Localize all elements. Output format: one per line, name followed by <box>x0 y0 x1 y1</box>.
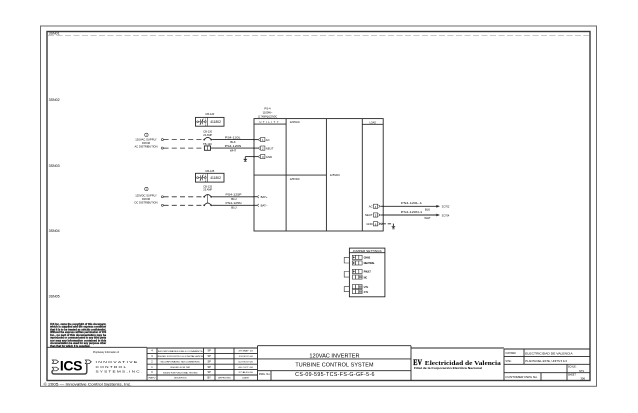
svg-text:CB-120: CB-120 <box>205 112 214 116</box>
svg-text:02 NOV 06: 02 NOV 06 <box>239 361 254 363</box>
svg-text:25 AMP: 25 AMP <box>203 187 212 191</box>
svg-text:S Y S T E M S , I N C .: S Y S T E M S , I N C . <box>96 370 143 374</box>
svg-text:LOAD: LOAD <box>369 120 376 124</box>
svg-text:27 AUG 06: 27 AUG 06 <box>239 371 254 374</box>
svg-text:FAULT: FAULT <box>364 271 372 274</box>
node 120VAC SUPPLY FROM AC DISTRIBUTION <box>135 138 158 149</box>
svg-text:JUMPER SETTINGS: JUMPER SETTINGS <box>353 249 382 253</box>
svg-text:FROM: FROM <box>142 197 151 201</box>
svg-text:CB-125: CB-125 <box>205 169 214 173</box>
svg-text:125VDC: 125VDC <box>330 173 340 177</box>
svg-text:SP: SP <box>207 359 211 363</box>
customer block text <box>505 351 585 380</box>
svg-text:BY: BY <box>207 376 211 380</box>
wire PS4-125P BLU <box>212 193 254 202</box>
note legal paragraph <box>50 323 107 348</box>
svg-text:© 2005 — Innovative Control Sy: © 2005 — Innovative Control Systems, Inc… <box>44 382 132 386</box>
node 125VDC SUPPLY FROM DC DISTRIBUTION <box>135 194 158 205</box>
svg-text:13 NOV 06: 13 NOV 06 <box>239 356 254 358</box>
svg-text:AC DISTRIBUTION: AC DISTRIBUTION <box>135 144 158 148</box>
wire PS4-120N-1 WHT to 3C704 <box>383 210 450 220</box>
jumper JP4 NC <box>352 275 367 279</box>
svg-text:3SN02: 3SN02 <box>49 98 60 102</box>
wire jumper bracket pair 2 <box>344 272 349 278</box>
svg-text:WHT: WHT <box>424 216 431 220</box>
wire dashed 120VAC hot feed <box>161 139 203 141</box>
svg-text:CUSTOMER DWG No.: CUSTOMER DWG No. <box>505 376 538 379</box>
svg-text:PS4-120L-1: PS4-120L-1 <box>401 201 423 205</box>
op-amp U1 inverter PS-4 box <box>254 119 383 231</box>
wire PS4-120L BLK <box>212 135 254 144</box>
svg-text:PS4-120L: PS4-120L <box>225 135 241 139</box>
svg-text:06 OCT 06: 06 OCT 06 <box>239 367 254 369</box>
pin terminal BAT+ <box>253 195 268 199</box>
svg-text:3SN03: 3SN03 <box>49 164 60 168</box>
jumper JP2 NEUTRAL <box>352 261 375 265</box>
svg-text:BLU: BLU <box>231 206 236 210</box>
breaker CB-125 auxiliary contact box 411802 <box>196 169 225 183</box>
svg-text:DC DISTRIBUTION: DC DISTRIBUTION <box>135 200 158 204</box>
svg-text:GND: GND <box>266 155 272 159</box>
svg-text:ISSUED FOR UNITS 5 & 6 INSTALL: ISSUED FOR UNITS 5 & 6 INSTALLATION <box>157 355 204 358</box>
svg-text:3C704: 3C704 <box>442 213 450 217</box>
wire dashed 125VDC negative feed <box>161 204 203 206</box>
svg-text:11.7AMP@125VDC: 11.7AMP@125VDC <box>258 114 278 118</box>
breaker CB-120 20 AMP <box>203 130 212 141</box>
pin 1 terminal AC input <box>253 138 269 143</box>
svg-text:DESCRIPTION: DESCRIPTION <box>174 378 187 380</box>
titleblock lines <box>47 346 590 381</box>
wire dashed 120VAC neutral feed <box>161 147 203 149</box>
svg-text:NEUTRAL: NEUTRAL <box>364 262 375 265</box>
svg-text:SITE:: SITE: <box>505 360 511 363</box>
svg-text:3SN04: 3SN04 <box>49 229 60 233</box>
svg-text:DATE: DATE <box>242 377 249 380</box>
wire PS4-120L-1 BLK to 3C702 <box>383 201 450 211</box>
svg-text:CUSTOMER: CUSTOMER <box>505 352 516 355</box>
svg-text:WHT: WHT <box>230 148 237 152</box>
svg-text:FROM: FROM <box>142 141 151 145</box>
ground input GND <box>243 157 254 162</box>
jumper JP5 UTL <box>352 285 369 289</box>
svg-text:120VAC: 120VAC <box>290 120 300 124</box>
pin 2 terminal NEUT input <box>253 146 274 151</box>
svg-text:SP: SP <box>207 370 211 374</box>
svg-text:TURBINE CONTROL SYSTEM: TURBINE CONTROL SYSTEM <box>295 362 374 368</box>
svg-text:SP: SP <box>207 354 211 358</box>
wire PS4-120N WHT <box>211 144 255 153</box>
svg-text:411802: 411802 <box>210 120 221 124</box>
breaker CB-125 25 AMP two pole <box>203 184 212 206</box>
svg-text:BAT–: BAT– <box>261 204 268 208</box>
svg-text:20 AMP: 20 AMP <box>203 133 212 137</box>
svg-text:INCORPORATED TAT COMMENTS: INCORPORATED TAT COMMENTS <box>161 361 201 364</box>
svg-text:PS4-125N: PS4-125N <box>226 201 242 205</box>
svg-text:APPROVED: APPROVED <box>218 377 231 380</box>
svg-text:AC: AC <box>266 138 270 142</box>
svg-text:I N N O V A T I V E: I N N O V A T I V E <box>96 360 138 364</box>
jumper settings box J1 <box>349 248 385 297</box>
jumper JP6 CTL <box>352 290 369 294</box>
breaker CB-120 auxiliary contact box 411802 <box>196 112 225 126</box>
border frame <box>41 26 597 386</box>
wire dashed 125VDC positive feed <box>161 196 203 198</box>
jumper JP1 CHAS <box>352 255 370 259</box>
svg-text:BAT+: BAT+ <box>261 195 268 199</box>
node source arrow 1 (120VAC supply) <box>145 133 148 137</box>
svg-text:SP: SP <box>207 365 211 369</box>
svg-text:C O N T R O L: C O N T R O L <box>96 365 127 369</box>
svg-text:3SN05: 3SN05 <box>49 295 60 299</box>
power supply U-PS4 name label <box>258 106 278 118</box>
svg-text:ISSUED FOR TAT: ISSUED FOR TAT <box>170 366 191 369</box>
svg-text:SCALE:: SCALE: <box>568 365 577 368</box>
svg-text:CTL: CTL <box>364 292 369 294</box>
svg-text:NEUT: NEUT <box>266 146 274 150</box>
svg-text:EV: EV <box>413 357 422 367</box>
svg-text:UTILITY: UTILITY <box>260 120 279 124</box>
svg-text:120VAC INVERTER: 120VAC INVERTER <box>309 353 359 359</box>
ground output GND <box>383 224 396 229</box>
wire PS4-125N BLU <box>212 201 254 210</box>
svg-text:SP: SP <box>207 349 211 353</box>
terminal TB-120 <box>203 142 212 150</box>
svg-text:125VDC SUPPLY: 125VDC SUPPLY <box>135 194 157 198</box>
svg-text:ELECTRICIDAD DE VALENCIA: ELECTRICIDAD DE VALENCIA <box>525 351 573 355</box>
jumper JP3 FAULT <box>352 269 371 273</box>
svg-text:306: 306 <box>580 377 585 381</box>
svg-text:125VDC: 125VDC <box>290 177 300 181</box>
svg-text:ICS: ICS <box>60 357 82 373</box>
svg-text:CS-09-595-TCS-FS-G-GF-5-6: CS-09-595-TCS-FS-G-GF-5-6 <box>295 372 375 378</box>
svg-text:CHAS: CHAS <box>364 257 371 260</box>
pin terminal BAT- <box>253 204 268 208</box>
svg-text:GND: GND <box>366 222 372 226</box>
wire jumper bracket pair 3 <box>344 287 349 292</box>
revision table rows <box>147 348 258 381</box>
svg-text:SHEET: SHEET <box>568 374 577 377</box>
svg-text:3SN01: 3SN01 <box>49 32 60 36</box>
svg-text:PS4-120N-1: PS4-120N-1 <box>401 210 423 214</box>
title text <box>259 353 375 378</box>
svg-text:PS4-125P: PS4-125P <box>226 193 242 197</box>
svg-text:PLANTA DEL ESTE, UNITS 5 & 6: PLANTA DEL ESTE, UNITS 5 & 6 <box>525 359 567 363</box>
node source arrow 2 (125VDC supply) <box>145 187 148 191</box>
svg-text:ISSUED FOR FUNCTIONAL TESTING: ISSUED FOR FUNCTIONAL TESTING <box>163 371 198 374</box>
svg-text:411802: 411802 <box>210 176 221 180</box>
svg-text:Proprietary Information of: Proprietary Information of <box>93 351 119 354</box>
svg-text:NTS: NTS <box>579 370 584 373</box>
pin 4 terminal AC output <box>369 204 384 209</box>
svg-text:NEUT: NEUT <box>365 213 373 217</box>
svg-text:BLK: BLK <box>425 207 430 211</box>
svg-text:INCORPORATED FIELD COMMENTS: INCORPORATED FIELD COMMENTS <box>158 350 204 353</box>
svg-text:3C702: 3C702 <box>442 205 450 209</box>
svg-text:AC: AC <box>369 205 373 209</box>
pin 5 terminal NEUT output <box>365 213 384 218</box>
svg-text:NC: NC <box>364 277 368 279</box>
svg-text:REV: REV <box>149 378 157 380</box>
svg-text:UTL: UTL <box>364 287 369 289</box>
ICS logo block <box>52 351 142 374</box>
pin 3 terminal GND input <box>253 155 272 160</box>
svg-text:29 MAY 10: 29 MAY 10 <box>239 350 254 353</box>
svg-text:DWG. No.: DWG. No. <box>259 373 271 376</box>
svg-text:PS4-120N: PS4-120N <box>225 144 242 148</box>
svg-text:Filial de la Corporación Eléct: Filial de la Corporación Eléctrica Nacio… <box>414 367 482 370</box>
pin 6 terminal GND output <box>366 222 382 227</box>
svg-text:120VAC SUPPLY: 120VAC SUPPLY <box>135 138 157 142</box>
wire jumper bracket pair 1 <box>344 257 349 263</box>
EV logo block <box>413 357 501 370</box>
